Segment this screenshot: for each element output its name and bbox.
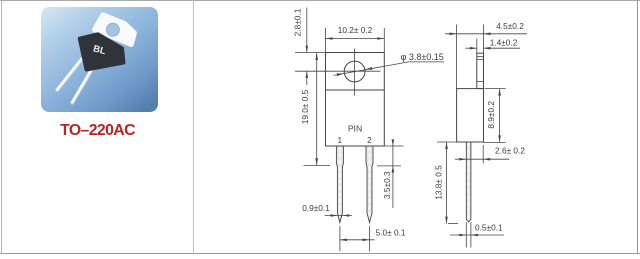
side body outline [457,89,484,142]
hole horizontal centerline [295,70,380,72]
column separator line [193,0,195,253]
svg-text:13.8± 0.5: 13.8± 0.5 [434,165,444,200]
front leg left [336,146,343,223]
dimension 0.9±0.1 [325,215,352,217]
dimension 13.8±0.5 [437,142,458,224]
side tab outline [477,53,484,88]
svg-text:3.5±0.3: 3.5±0.3 [382,171,392,199]
body outline front view [326,53,385,147]
dimension 10.2±0.2 [326,28,385,53]
svg-text:PIN: PIN [348,124,362,134]
mounting hole circle [344,61,365,82]
dimension 2.6±0.2 [455,145,509,164]
side hole bottom line [477,81,484,83]
side tab step line [477,55,484,57]
svg-text:0.9±0.1: 0.9±0.1 [302,203,330,213]
svg-text:φ 3.8±0.15: φ 3.8±0.15 [401,52,444,62]
svg-text:2.6± 0.2: 2.6± 0.2 [495,146,525,156]
side leg [466,142,471,222]
svg-text:TO–220AC: TO–220AC [60,122,135,139]
hole vertical centerline [354,49,356,96]
side hole top line [477,58,484,60]
dimension 3.5±0.3 [377,140,404,208]
dimension 19.0±0.5 [316,53,318,165]
hole diameter leader line [334,62,445,76]
svg-text:2: 2 [367,135,372,145]
svg-text:4.5±0.2: 4.5±0.2 [496,21,524,31]
body top extension line [295,52,326,54]
dimension 2.8±0.1 [306,8,308,86]
front leg right [366,146,373,223]
package body [80,34,124,69]
svg-text:2.8±0.1: 2.8±0.1 [293,8,303,36]
shoulder extension line left [304,164,331,166]
svg-text:10.2± 0.2: 10.2± 0.2 [338,25,373,35]
package tab shadow [98,34,122,49]
package tab hole [106,23,119,36]
package leg right [72,66,94,103]
tab boundary line [326,89,385,91]
package metal tab [95,15,135,45]
page frame left border [1,0,3,254]
TO-220 package photo [57,15,134,103]
dimension 5.0±0.1 [340,226,375,251]
page frame bottom border [0,253,640,255]
dimension 4.5±0.2 [445,25,527,89]
svg-text:19.0± 0.5: 19.0± 0.5 [300,89,310,124]
leader arrow left [337,73,344,76]
page frame top border [0,0,640,2]
svg-text:8.9±0.2: 8.9±0.2 [486,101,496,129]
dimension 0.5±0.1 [450,222,504,248]
dimension 1.4±0.2 [465,39,520,54]
svg-text:1: 1 [337,135,342,145]
page frame right border [637,0,639,254]
svg-text:1.4±0.2: 1.4±0.2 [490,38,518,48]
dimension 8.9±0.2 [484,89,506,143]
svg-text:5.0± 0.1: 5.0± 0.1 [376,228,406,238]
package leg left [57,59,82,90]
svg-text:0.5±0.1: 0.5±0.1 [475,223,503,233]
leader arrow right [365,67,372,70]
product photo card background [41,7,158,112]
